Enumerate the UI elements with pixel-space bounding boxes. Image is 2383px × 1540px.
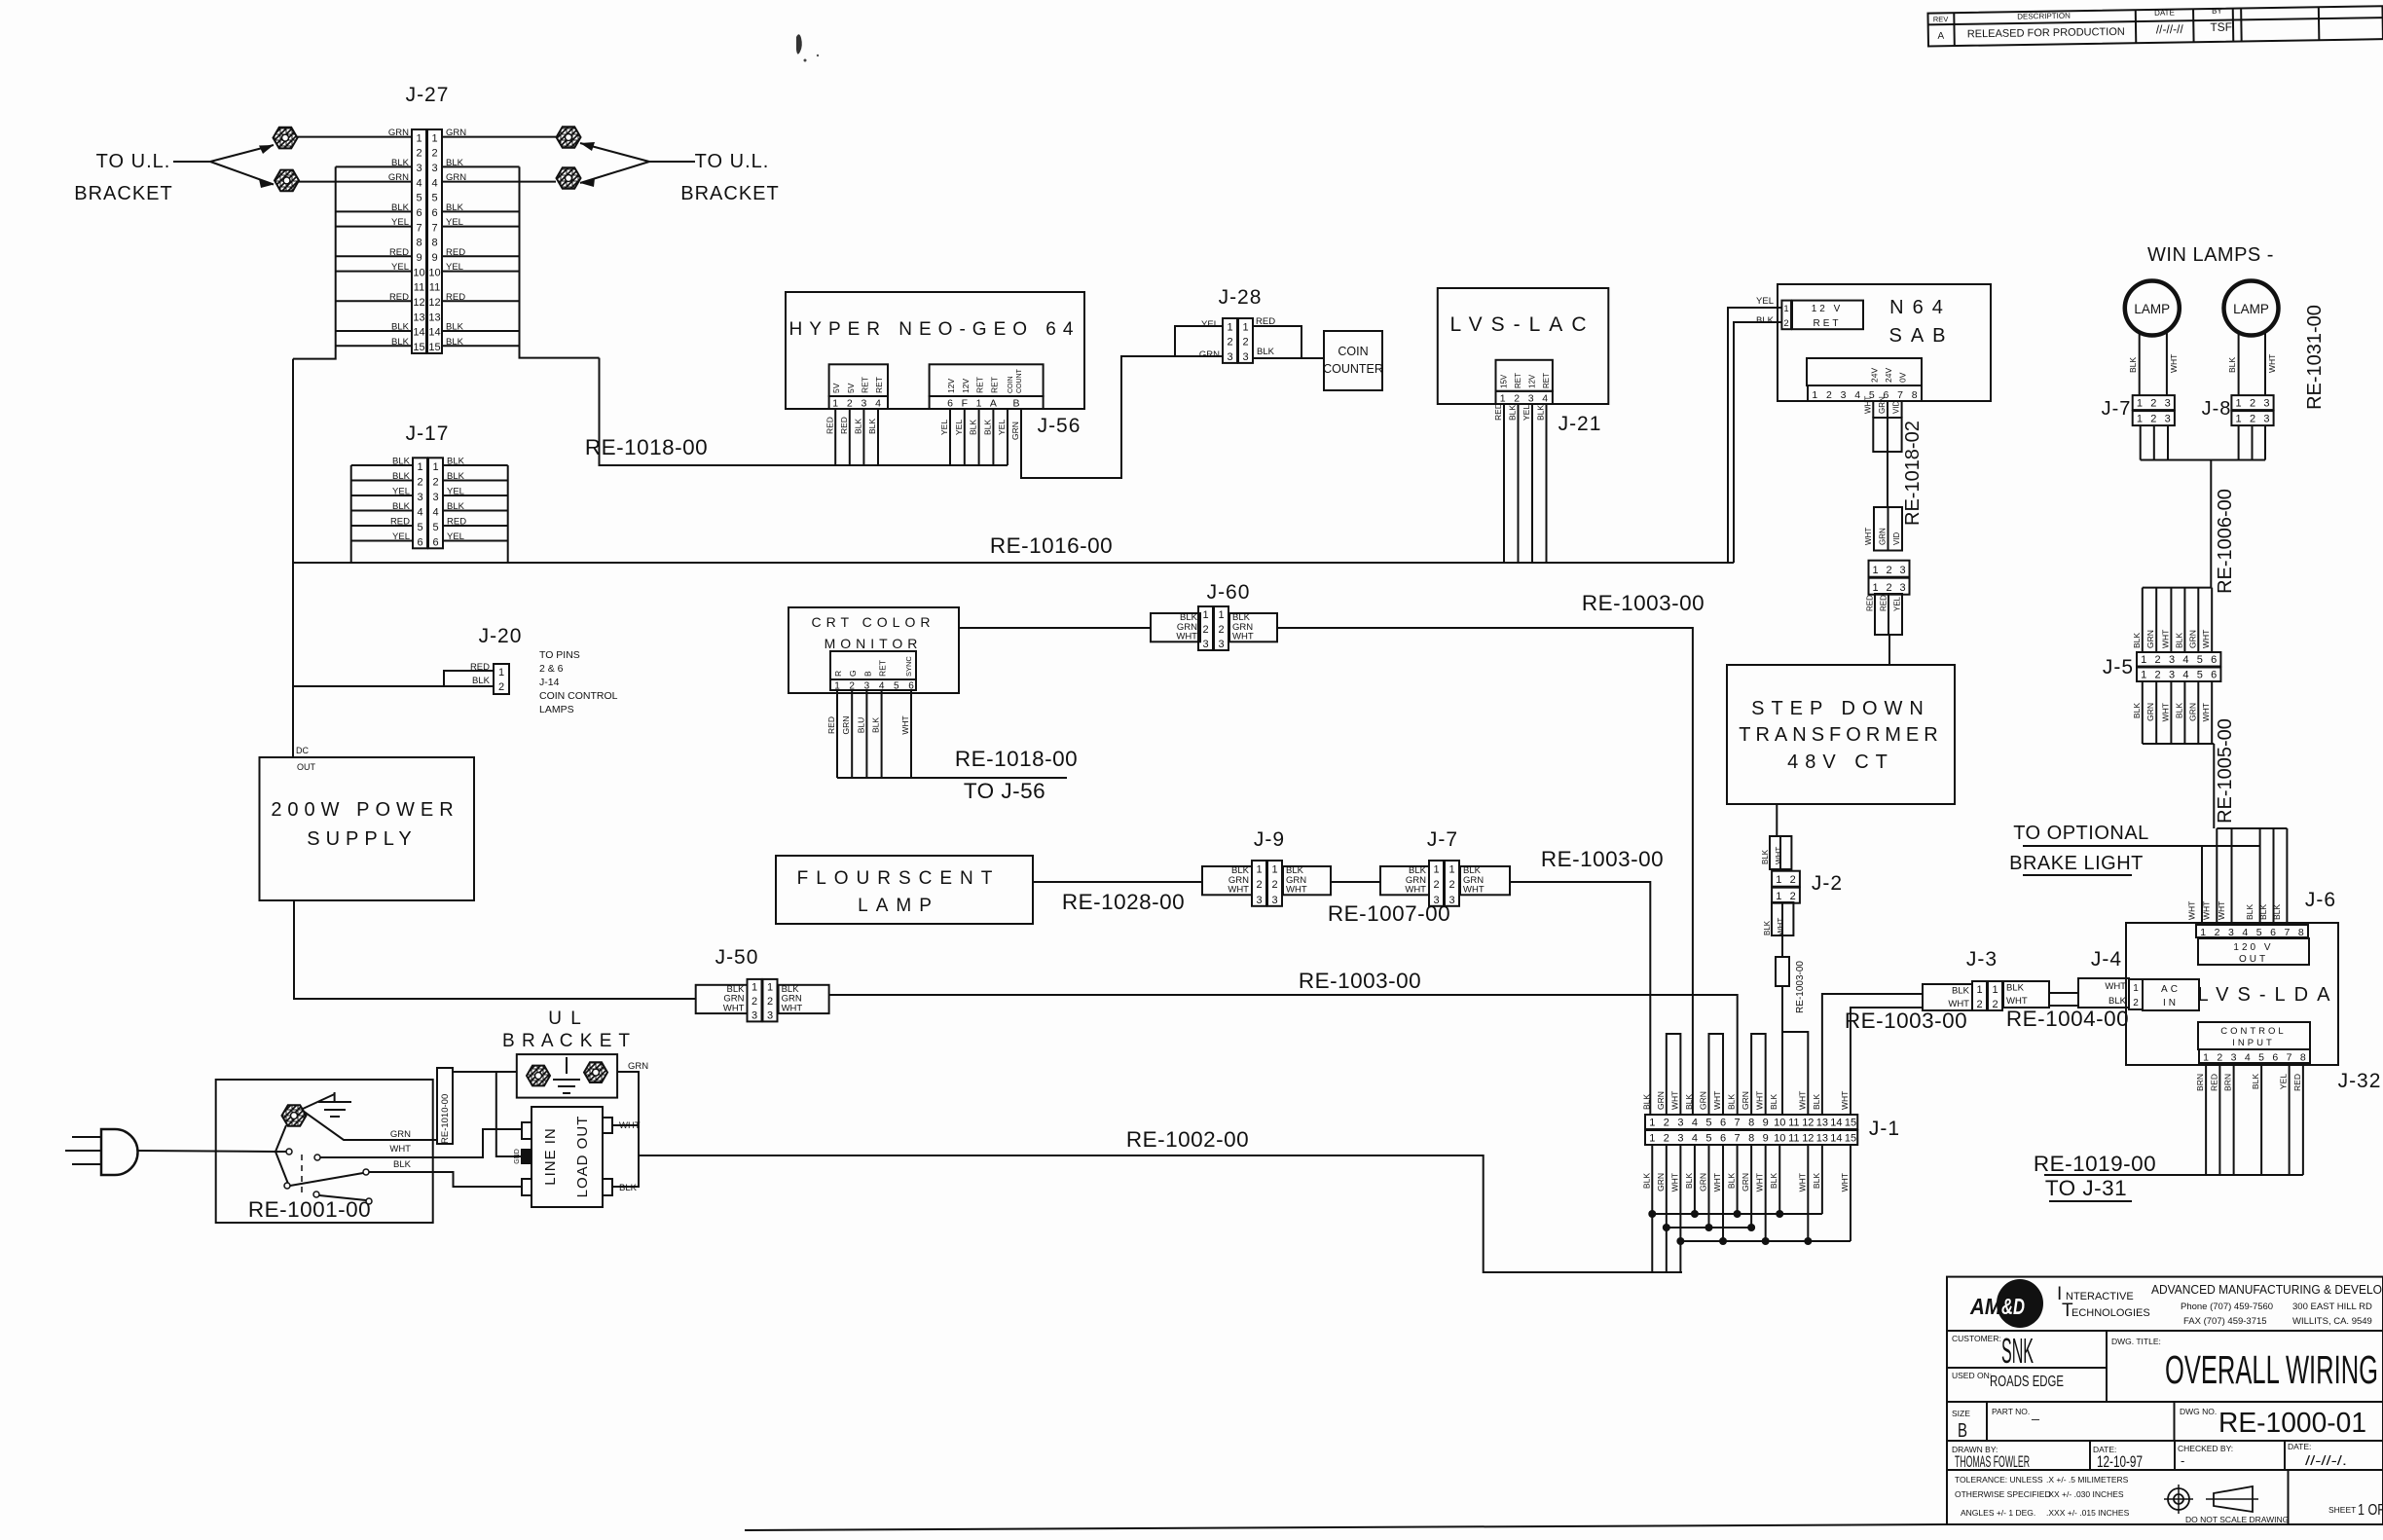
svg-text:13: 13 (1816, 1133, 1828, 1145)
wires J-21 to RE-1016 bus (1503, 404, 1505, 563)
svg-text:WHT: WHT (2187, 901, 2197, 920)
svg-text:14: 14 (1830, 1118, 1842, 1129)
svg-text:CONTROL: CONTROL (2220, 1026, 2286, 1037)
cable above J-5 (2143, 587, 2212, 589)
svg-text:2: 2 (431, 148, 437, 160)
svg-text:WHT: WHT (2160, 703, 2170, 721)
svg-text:8: 8 (1912, 389, 1918, 401)
svg-text:3: 3 (1256, 895, 1262, 906)
svg-text:10: 10 (1774, 1118, 1785, 1129)
svg-text:15: 15 (428, 342, 440, 353)
svg-text:8: 8 (431, 238, 437, 249)
svg-text:2: 2 (1664, 1133, 1669, 1145)
svg-text:24V: 24V (1869, 368, 1879, 383)
svg-text:GRN: GRN (1656, 1173, 1666, 1192)
svg-text:3: 3 (1218, 639, 1224, 650)
wire RE-1018-00 bus (600, 358, 1008, 465)
connector J-3 right label box (2003, 981, 2049, 1008)
svg-text:TSF: TSF (2210, 20, 2232, 34)
connector J-7 right label box (1460, 866, 1510, 895)
svg-text:1: 1 (767, 981, 773, 993)
wire filter BLK out (612, 1155, 639, 1187)
svg-text:5: 5 (2197, 670, 2203, 681)
svg-text:2: 2 (1826, 389, 1832, 401)
wire YEL into J-28 pin1 (1175, 326, 1223, 356)
svg-text:2: 2 (1433, 879, 1439, 891)
svg-text:DWG NO.: DWG NO. (2180, 1407, 2217, 1416)
wires lamp right to J-8 (2238, 333, 2240, 395)
svg-text:WHT: WHT (2217, 901, 2226, 920)
svg-text:B: B (862, 671, 872, 677)
wire brake light feed (2023, 845, 2260, 847)
svg-text:WHT: WHT (1232, 632, 1254, 642)
svg-text:4: 4 (432, 506, 438, 518)
svg-text://-//-/.: //-//-/. (2305, 1452, 2347, 1468)
svg-text:RED: RED (825, 417, 834, 434)
wire bracket drop to filter GND (496, 1072, 522, 1156)
svg-text:2: 2 (2133, 998, 2139, 1008)
svg-text:2: 2 (1514, 392, 1520, 404)
svg-text:WHT: WHT (1797, 1091, 1807, 1110)
wire J-17 left bus to RE-1016 (350, 465, 352, 563)
bus BLK below J-1 (1652, 1213, 1822, 1215)
svg-text:RED: RED (2292, 1074, 2302, 1091)
svg-text:6: 6 (416, 207, 422, 219)
svg-text:BLK: BLK (1684, 1094, 1694, 1110)
svg-text:LVS-LDA: LVS-LDA (2198, 984, 2339, 1006)
svg-text:MONITOR: MONITOR (825, 636, 923, 651)
svg-text:TO OPTIONAL: TO OPTIONAL (2013, 823, 2149, 844)
svg-text:TO U.L.: TO U.L. (96, 151, 171, 172)
svg-text:12: 12 (1802, 1118, 1814, 1129)
svg-text:6: 6 (947, 398, 953, 410)
svg-text:1: 1 (431, 132, 437, 144)
svg-text:6: 6 (1720, 1133, 1726, 1145)
svg-text:ADVANCED MANUFACTURING & DEVEL: ADVANCED MANUFACTURING & DEVELOP (2151, 1282, 2383, 1297)
svg-text:B R A C K E T: B R A C K E T (502, 1031, 631, 1051)
connector J-56 strip B labels (930, 364, 1044, 396)
svg-text:1: 1 (1242, 321, 1248, 333)
svg-text:1: 1 (2137, 398, 2143, 410)
connector J-3 pin strip (1972, 981, 1987, 1010)
box LVS-LDA (2126, 923, 2338, 1065)
svg-text:WHT: WHT (1755, 1173, 1765, 1192)
svg-text:3: 3 (767, 1009, 773, 1021)
svg-text:TO PINS: TO PINS (539, 649, 580, 661)
svg-text:1: 1 (1872, 582, 1878, 594)
svg-text:GRN: GRN (1741, 1091, 1750, 1110)
svg-text:YEL: YEL (954, 420, 964, 435)
svg-text:11: 11 (1788, 1118, 1799, 1129)
svg-text:BLK: BLK (1257, 347, 1275, 357)
wire RE-1005-00 drop (2213, 744, 2215, 828)
svg-text:J-32: J-32 (2338, 1070, 2382, 1092)
svg-text:BRACKET: BRACKET (74, 183, 172, 204)
svg-text:WHT: WHT (1777, 918, 1785, 935)
svg-text:RE-1028-00: RE-1028-00 (1062, 890, 1185, 914)
svg-text:SHEET: SHEET (2328, 1505, 2356, 1515)
svg-text:YEL: YEL (1756, 296, 1774, 307)
svg-text:1: 1 (752, 981, 757, 993)
svg-text:GRN: GRN (390, 1129, 411, 1140)
svg-text:J-9: J-9 (1254, 828, 1285, 851)
svg-text:1: 1 (2236, 414, 2242, 425)
connector CRT pins (830, 679, 916, 690)
svg-text:BLK: BLK (867, 419, 877, 434)
wires J-1 pins 1-3 to RE-1002 feed (1651, 1214, 1653, 1272)
svg-text:RE-1010-00: RE-1010-00 (440, 1094, 451, 1144)
svg-text:1: 1 (976, 398, 982, 410)
svg-text:ECHNOLOGIES: ECHNOLOGIES (2071, 1307, 2150, 1319)
svg-text:1: 1 (1433, 864, 1439, 876)
svg-text:1: 1 (2133, 983, 2139, 994)
svg-text:5: 5 (2197, 654, 2203, 666)
connector J-21 labels (1496, 360, 1553, 391)
svg-text:TRANSFORMER: TRANSFORMER (1739, 724, 1942, 746)
svg-text:RET: RET (989, 377, 999, 393)
svg-text://-//-//: //-//-// (2156, 22, 2184, 36)
svg-text:14: 14 (428, 327, 440, 339)
svg-text:GRN: GRN (841, 716, 851, 735)
svg-text:BLK: BLK (2258, 904, 2268, 920)
connector J-9 left label box (1202, 866, 1252, 895)
svg-text:USED ON:: USED ON: (1952, 1371, 1992, 1380)
svg-text:4: 4 (1542, 392, 1548, 404)
revision table (1927, 4, 2383, 46)
svg-text:3: 3 (1528, 392, 1534, 404)
box CONTROL INPUT (2198, 1022, 2310, 1049)
svg-text:9: 9 (431, 252, 437, 264)
svg-text:15: 15 (1845, 1118, 1856, 1129)
wire RE-1003-00 J-7 to J-1 pin1 (1510, 882, 1650, 1115)
svg-text:7: 7 (2287, 1052, 2292, 1064)
svg-text:2: 2 (752, 996, 757, 1008)
cable below J-5 (2143, 743, 2215, 745)
svg-text:WHT: WHT (1797, 1173, 1807, 1192)
svg-text:12: 12 (413, 297, 424, 309)
svg-text:2: 2 (2155, 654, 2161, 666)
svg-text:1: 1 (432, 461, 438, 473)
svg-text:FLOURSCENT: FLOURSCENT (797, 868, 1001, 889)
wires lamp left to J-7 (2139, 333, 2141, 395)
svg-text:SIZE: SIZE (1952, 1409, 1970, 1418)
ground symbol in bracket (566, 1057, 568, 1074)
svg-text:2: 2 (2150, 414, 2156, 425)
svg-text:LAMP: LAMP (2134, 302, 2170, 316)
svg-text:WHT: WHT (1228, 885, 1249, 896)
svg-text:RE-1003-00: RE-1003-00 (1795, 961, 1806, 1013)
box EMI filter LINE IN / LOAD OUT (532, 1107, 603, 1207)
svg-text:3: 3 (1841, 389, 1847, 401)
svg-text:J-27: J-27 (406, 84, 450, 106)
wire J-17 right bus to RE-1016 (507, 465, 509, 563)
bus WHT below J-1 (1680, 1240, 1851, 1242)
wire J-20 feed from left bus (293, 671, 494, 686)
svg-text:GRN: GRN (2187, 703, 2197, 721)
svg-text:BLK: BLK (1756, 315, 1775, 326)
svg-text:RE-1018-02: RE-1018-02 (1902, 421, 1924, 526)
wire pair J-1 pins 2-3 loop (1667, 1034, 1681, 1115)
svg-text:1: 1 (1812, 389, 1817, 401)
svg-text:LOAD OUT: LOAD OUT (574, 1116, 591, 1198)
svg-text:WHT: WHT (1864, 528, 1873, 545)
svg-text:LAMP: LAMP (2233, 302, 2269, 316)
svg-text:J-6: J-6 (2305, 889, 2336, 911)
svg-text:YEL: YEL (1521, 405, 1531, 421)
svg-text:AM: AM (1969, 1294, 2002, 1319)
svg-text:WHT: WHT (1775, 847, 1783, 864)
wire RED from J-28 pin1 (1253, 326, 1301, 358)
wires J-27 left pins to left bus (336, 165, 412, 167)
svg-text:J-20: J-20 (479, 625, 523, 647)
filter terminals (522, 1122, 532, 1139)
svg-text:1: 1 (2236, 398, 2242, 410)
svg-text:7: 7 (1735, 1133, 1741, 1145)
svg-text:WHT: WHT (1712, 1091, 1722, 1110)
wire left vertical bus from J-27 to power supply (292, 359, 294, 757)
svg-text:8: 8 (416, 238, 422, 249)
svg-text:COUNT: COUNT (1016, 368, 1023, 393)
svg-text:J-28: J-28 (1219, 286, 1263, 309)
connector J-1 strip (1645, 1115, 1857, 1129)
cable RE-1018-02 lower (1874, 507, 1902, 551)
connector J-9 pin strip (1252, 861, 1266, 906)
svg-text:1: 1 (1776, 874, 1781, 886)
wire J-9 to J-7 (1331, 881, 1380, 883)
box RE-1001-00 switch assembly (216, 1080, 433, 1223)
svg-text:2: 2 (2217, 1052, 2222, 1064)
title block logo AM&D (1997, 1279, 2043, 1328)
wire plug to switch common (138, 1151, 275, 1152)
svg-text:5: 5 (1705, 1118, 1711, 1129)
wire J-27 pin1 right GRN to bolt (443, 136, 557, 138)
svg-text:1: 1 (834, 681, 840, 692)
svg-text:7: 7 (416, 222, 422, 234)
svg-text:VID: VID (1892, 400, 1901, 414)
wire pair J-1 pins 5-6 loop (1708, 1034, 1723, 1115)
svg-text:1: 1 (1202, 609, 1208, 621)
svg-text:48V CT: 48V CT (1787, 752, 1894, 773)
svg-text:4: 4 (879, 681, 885, 692)
wires J-32 bottom (2205, 1063, 2207, 1175)
title block frame (1947, 1277, 2383, 1524)
svg-text:J-60: J-60 (1207, 581, 1251, 604)
svg-text:RED: RED (1493, 403, 1503, 421)
svg-text:BLK: BLK (2272, 904, 2282, 920)
svg-text:3: 3 (864, 681, 870, 692)
connector J-60 pin strip (1198, 606, 1213, 650)
svg-text:2: 2 (2155, 670, 2161, 681)
svg-text:OVERALL WIRING: OVERALL WIRING (2165, 1347, 2378, 1392)
svg-text:3: 3 (2169, 654, 2175, 666)
wires J-56 strip A to RE-1018 bus (834, 409, 836, 465)
connector J-3 left label box (1923, 984, 1972, 1010)
svg-text:BLK: BLK (1641, 1094, 1651, 1110)
connector J-6 pin strip (2196, 925, 2308, 937)
wire J-1 pin13 to J-3 (1822, 994, 1923, 1115)
svg-text:J-50: J-50 (715, 946, 759, 969)
svg-text:J-21: J-21 (1558, 413, 1602, 435)
connector J-9 right label box (1283, 866, 1331, 895)
switch pole BLK (284, 1183, 290, 1189)
svg-text:3: 3 (1899, 565, 1905, 576)
svg-text:RE-1003-00: RE-1003-00 (1582, 591, 1705, 615)
svg-text:RET: RET (860, 377, 869, 393)
scan artifact smudge (796, 34, 802, 54)
svg-text:3: 3 (431, 163, 437, 174)
wire J-27 right bus (520, 166, 600, 357)
svg-text:HYPER NEO-GEO 64: HYPER NEO-GEO 64 (789, 319, 1081, 340)
svg-text:IN: IN (2163, 998, 2179, 1008)
svg-text:.XXX +/- .015 INCHES: .XXX +/- .015 INCHES (2046, 1508, 2130, 1518)
bolt lower-left (275, 170, 299, 192)
svg-text:J-56: J-56 (1038, 415, 1082, 437)
svg-text:J-5: J-5 (2103, 656, 2134, 678)
svg-text:CHECKED BY:: CHECKED BY: (2178, 1444, 2233, 1453)
svg-text:BLK: BLK (2174, 703, 2183, 718)
svg-text:U L: U L (548, 1008, 583, 1029)
svg-text:BLK: BLK (393, 1159, 412, 1170)
svg-text:BLK: BLK (2132, 633, 2142, 648)
svg-text:1: 1 (1649, 1118, 1655, 1129)
svg-text:15V: 15V (1500, 374, 1509, 388)
svg-text:6: 6 (431, 207, 437, 219)
title block row customer (1947, 1330, 2383, 1332)
cable above J-2 (1770, 836, 1791, 869)
bus GRN below J-1 (1667, 1227, 1751, 1228)
svg-text:4: 4 (2245, 1052, 2251, 1064)
svg-text:NTERACTIVE: NTERACTIVE (2066, 1291, 2134, 1302)
svg-text:2: 2 (1886, 582, 1891, 594)
wire J-1 pin12 tee from J-2 drop (1782, 1032, 1808, 1115)
svg-text:DESCRIPTION: DESCRIPTION (2017, 12, 2071, 21)
svg-text:RET: RET (1514, 373, 1522, 388)
svg-text:VID: VID (1892, 532, 1901, 545)
svg-text:BLK: BLK (1812, 1173, 1821, 1189)
svg-text:GRN: GRN (1878, 396, 1887, 414)
svg-text:WHT: WHT (2169, 354, 2179, 373)
svg-text:J-4: J-4 (2091, 948, 2122, 971)
wire RE-1003-00 bus J-50 to J-1 pin7 (829, 995, 1738, 1115)
svg-text:12: 12 (1802, 1133, 1814, 1145)
svg-text:14: 14 (1830, 1133, 1842, 1145)
svg-text:THOMAS FOWLER: THOMAS FOWLER (1955, 1452, 2030, 1471)
bolt bracket left (527, 1066, 550, 1086)
svg-text:4: 4 (1692, 1133, 1698, 1145)
connector RE-1018-02 inline (1869, 561, 1910, 577)
connector J-20 pin box (494, 664, 509, 694)
svg-text:GRN: GRN (1656, 1091, 1666, 1110)
svg-text:RE-1018-00: RE-1018-00 (585, 435, 708, 459)
wires N64 12V to RE-1016 bus (1728, 308, 1781, 563)
wire RE-1018-02 run (1887, 452, 1888, 507)
svg-text:6: 6 (1720, 1118, 1726, 1129)
svg-text:DATE:: DATE: (2288, 1442, 2311, 1451)
svg-text:2: 2 (1976, 999, 1982, 1010)
svg-text:3: 3 (432, 492, 438, 503)
svg-text:BLK: BLK (2251, 1074, 2260, 1089)
svg-text:GRN: GRN (1741, 1173, 1750, 1192)
svg-text:BLK: BLK (871, 717, 881, 733)
connector J-50 left label box (696, 985, 748, 1013)
lamp left (2125, 281, 2180, 336)
svg-text:2 & 6: 2 & 6 (539, 663, 564, 675)
svg-text:F: F (962, 398, 968, 410)
svg-text:WHT: WHT (1840, 1173, 1850, 1192)
svg-text:WHT: WHT (900, 715, 910, 734)
svg-text:WHT: WHT (2202, 901, 2212, 920)
svg-text:2: 2 (2250, 398, 2255, 410)
svg-text:3: 3 (416, 163, 422, 174)
svg-text:CRT COLOR: CRT COLOR (812, 614, 935, 630)
bolt bracket right (584, 1062, 607, 1082)
svg-text:_: _ (2031, 1405, 2039, 1420)
svg-text:3: 3 (2263, 398, 2269, 410)
svg-text:3: 3 (1202, 639, 1208, 650)
svg-text:FAX (707) 459-3715: FAX (707) 459-3715 (2183, 1316, 2267, 1327)
svg-text:1: 1 (2203, 1052, 2209, 1064)
wire RE-1003-00 J-60 to J-1 pin4 (1277, 628, 1693, 1115)
connector J-7 left label box (1380, 866, 1429, 895)
box 200W power supply (260, 757, 475, 900)
svg-text:1: 1 (1976, 984, 1982, 996)
box N64 SAB (1778, 284, 1991, 401)
svg-text:TO J-56: TO J-56 (964, 779, 1045, 803)
svg-text:3: 3 (2228, 927, 2234, 938)
svg-text:.X +/- .5 MILIMETERS: .X +/- .5 MILIMETERS (2046, 1475, 2129, 1485)
svg-text:J-1: J-1 (1869, 1118, 1900, 1140)
svg-text:4: 4 (1854, 389, 1860, 401)
svg-text:1: 1 (1776, 891, 1781, 902)
svg-text:WHT: WHT (1712, 1173, 1722, 1192)
svg-text:OUT: OUT (297, 762, 316, 772)
svg-text:PART NO.: PART NO. (1992, 1407, 2030, 1416)
svg-text:J-17: J-17 (406, 422, 450, 445)
svg-text:RE-1003-00: RE-1003-00 (1845, 1008, 1967, 1033)
svg-text:3: 3 (2165, 414, 2171, 425)
svg-text:WHT: WHT (1755, 1091, 1765, 1110)
svg-text:WHT: WHT (2201, 703, 2211, 721)
leader arrows to U.L. bolts right (649, 161, 695, 163)
svg-text:RED: RED (1866, 595, 1875, 611)
lamp right (2224, 281, 2279, 336)
svg-text:8: 8 (1748, 1133, 1754, 1145)
wires lamps to RE-1006 bus (2140, 425, 2142, 460)
connector J-7 pin strip (1429, 861, 1444, 906)
svg-text:1: 1 (1649, 1133, 1655, 1145)
svg-text:RE-1006-00: RE-1006-00 (2215, 489, 2236, 594)
connector J-2 (1772, 871, 1800, 887)
wires N64 outputs down (1872, 401, 1874, 418)
svg-text:BLK: BLK (1763, 920, 1772, 935)
svg-text:GRN: GRN (1698, 1091, 1707, 1110)
wire J-27 left bus (293, 166, 336, 358)
svg-text:1: 1 (1783, 304, 1788, 314)
svg-text:1: 1 (2137, 414, 2143, 425)
svg-text:5: 5 (432, 522, 438, 533)
svg-text:3: 3 (1899, 582, 1905, 594)
svg-text:REV: REV (1933, 15, 1949, 23)
svg-text:Phone (707) 459-7560: Phone (707) 459-7560 (2181, 1302, 2273, 1312)
svg-text:1: 1 (2141, 654, 2146, 666)
wire J-1 pin15 to J-3 (1851, 1008, 1923, 1115)
svg-text:12V: 12V (1528, 374, 1537, 388)
wire filter WHT out (612, 1124, 639, 1126)
svg-text:WHT: WHT (723, 1003, 745, 1013)
svg-text:GRN: GRN (1199, 349, 1220, 360)
wire J-27 pin4 left GRN to bolt (298, 181, 412, 183)
svg-text:2: 2 (849, 681, 855, 692)
